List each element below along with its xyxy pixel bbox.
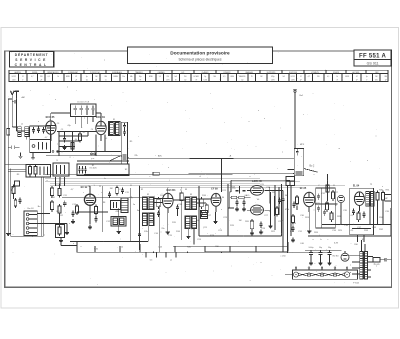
svg-text:c: c [328, 239, 329, 241]
svg-text:EC92: EC92 [12, 76, 16, 78]
parts table data cells [12, 74, 387, 82]
svg-text:AM: AM [22, 96, 25, 99]
harness wire 1 [45, 178, 260, 180]
wire bus risers [95, 244, 256, 258]
svg-text:1k: 1k [121, 247, 123, 249]
bus wire AVC right [128, 158, 295, 159]
svg-text:470k: 470k [285, 209, 289, 211]
svg-text:P5: P5 [346, 268, 348, 270]
resistor R0 on left rail [7, 126, 10, 137]
tube V1 ECC85 [46, 121, 56, 141]
svg-text:ECH81: ECH81 [194, 76, 199, 78]
FM dipole lead [293, 89, 297, 148]
wire links to filter boxes [8, 169, 26, 172]
svg-text:3n9: 3n9 [174, 76, 177, 78]
svg-text:12: 12 [300, 76, 302, 78]
svg-text:1k: 1k [57, 76, 59, 78]
wire V8 drop [307, 212, 311, 233]
svg-text:1/2W: 1/2W [291, 79, 295, 81]
svg-text:220: 220 [317, 76, 320, 78]
svg-text:1,5: 1,5 [159, 76, 161, 78]
box filter unit 1 [26, 165, 51, 178]
wire stage box V6 [281, 184, 283, 236]
resistor R15 [180, 191, 183, 203]
dial cord pulleys and cord [285, 267, 351, 278]
wire right bus upper [322, 224, 391, 226]
ground G1 [62, 145, 66, 149]
wire V1 plate to cap bank [51, 113, 71, 121]
svg-text:1/2W: 1/2W [166, 79, 170, 81]
svg-text:4,7: 4,7 [308, 76, 310, 78]
svg-text:FF 551 A: FF 551 A [359, 54, 387, 60]
svg-text:1/2W: 1/2W [203, 79, 207, 81]
tube V5 EF89 second [211, 193, 221, 212]
svg-text:150: 150 [184, 76, 187, 78]
resistor R28b [332, 190, 335, 201]
voltage selector box [373, 258, 391, 263]
svg-text:±5: ±5 [105, 79, 107, 81]
ground G2 [59, 238, 63, 242]
svg-text:EABC 80: EABC 80 [252, 180, 262, 183]
svg-text:1M: 1M [285, 195, 288, 197]
wire stage box V5 [199, 184, 282, 236]
harness wire 2 [45, 181, 300, 183]
wire double drop [290, 186, 292, 236]
svg-text:c: c [150, 176, 151, 178]
wire V8 anode link [315, 204, 338, 205]
parts top of panel [14, 197, 22, 208]
svg-text:GS 911: GS 911 [367, 62, 379, 66]
svg-text:110-245: 110-245 [373, 264, 379, 266]
harness wire 4 [50, 185, 345, 187]
svg-text:EF 85: EF 85 [300, 187, 307, 190]
wire y212 link [77, 211, 108, 213]
power transformer T3 [349, 252, 373, 280]
svg-text:R4: R4 [75, 139, 77, 141]
wire output box bottom [352, 228, 371, 229]
svg-text:d: d [199, 176, 200, 178]
ground G7 [250, 218, 273, 235]
antenna AM dipole [11, 91, 19, 96]
svg-text:C3: C3 [61, 129, 63, 131]
svg-text:Schéma et pièces électriques: Schéma et pièces électriques [178, 57, 221, 61]
svg-text:SERVICE: SERVICE [15, 58, 48, 62]
wire V3 right vertical [102, 186, 103, 232]
svg-text:EF 89: EF 89 [211, 187, 218, 190]
resistor R25 [326, 183, 329, 194]
wire detector drop [158, 205, 160, 252]
resistor R20 [250, 219, 253, 231]
svg-text:EF89: EF89 [345, 76, 349, 78]
tube V4 EF89 [163, 193, 174, 213]
box oscillator coil [111, 201, 121, 210]
switch S1 [102, 155, 122, 161]
resistor R14 [157, 197, 160, 209]
AF coupling parts [291, 214, 295, 242]
capacitor electrolytic C52 [327, 250, 331, 265]
rectifier V10 EZ80 [341, 251, 349, 261]
svg-text:p.u.: p.u. [91, 158, 95, 160]
wire oval stubs [247, 191, 270, 212]
svg-text:EZ 80: EZ 80 [333, 256, 340, 258]
svg-text:V: V [131, 79, 132, 81]
wire right verticals [341, 202, 391, 242]
svg-text:220: 220 [40, 76, 43, 78]
svg-text:125V: 125V [12, 79, 16, 81]
svg-text:FUSIBL.: FUSIBL. [32, 72, 39, 74]
svg-text:ECC 85: ECC 85 [46, 116, 55, 119]
svg-text:50µ: 50µ [139, 76, 142, 78]
svg-text:12: 12 [22, 76, 24, 78]
svg-text:50µ: 50µ [319, 247, 322, 249]
svg-text:R5: R5 [83, 132, 85, 134]
resistor R17 [205, 203, 208, 215]
svg-text:nF: nF [195, 79, 197, 81]
tube V7 lower triode [251, 205, 264, 215]
capacitor C13 [63, 200, 66, 207]
harness junction dots [88, 158, 230, 193]
svg-text:C4: C4 [91, 129, 93, 131]
parts table header cells [14, 70, 379, 74]
capacitor electrolytic C51 [318, 250, 322, 265]
wire stage links [154, 199, 211, 204]
output stage box [350, 188, 374, 235]
wire antenna leads [12, 95, 24, 131]
svg-text:C5 C6 C7 C8: C5 C6 C7 C8 [77, 102, 90, 104]
svg-text:DIVERS: DIVERS [333, 72, 339, 74]
svg-text:EC92: EC92 [291, 76, 295, 78]
box keyboard switch [77, 161, 129, 176]
svg-text:pF: pF [300, 79, 302, 81]
capacitor C2a [8, 146, 19, 149]
coil L1b [25, 127, 29, 137]
resistor R4 [71, 140, 74, 151]
IF can F3a [185, 197, 197, 210]
svg-text:380: 380 [104, 76, 107, 78]
bus wire AVC left [46, 155, 121, 157]
resistor R27 [330, 211, 333, 222]
svg-text:25: 25 [251, 76, 253, 78]
svg-text:SUPPORTS: SUPPORTS [267, 72, 276, 74]
coil L5 hatched [121, 198, 128, 213]
svg-text:Documentation provisoire: Documentation provisoire [170, 50, 230, 56]
capacitor C31 [317, 193, 320, 200]
wire lower-left loop [11, 169, 43, 237]
tube V8 EL84 [304, 192, 315, 212]
svg-text:1k: 1k [336, 76, 338, 78]
resistor R30 [376, 190, 379, 202]
svg-text:c 250: c 250 [280, 256, 286, 258]
connector PU [91, 153, 96, 155]
harness wire 3 [50, 183, 260, 185]
coil under V5 [201, 211, 208, 219]
svg-text:5p: 5p [366, 76, 368, 78]
diode detector cluster [228, 186, 251, 211]
wire HP links [385, 195, 392, 202]
volume control cluster [271, 192, 282, 218]
svg-text:EZ80: EZ80 [149, 76, 153, 78]
svg-text:EM84: EM84 [114, 76, 118, 78]
svg-text:Bu 4-8: Bu 4-8 [28, 208, 35, 210]
svg-text:0,5: 0,5 [223, 76, 225, 78]
svg-text:6,3V: 6,3V [334, 243, 339, 245]
resistor R16 [200, 197, 203, 209]
wire V4 drop [166, 203, 182, 240]
svg-text:pF: pF [385, 79, 387, 81]
capacitor C1 antenna [12, 100, 16, 103]
wire transformer risers [362, 240, 366, 252]
small driver circle [337, 195, 344, 208]
wire right bus lower [308, 235, 391, 237]
ground left rail [6, 231, 10, 235]
capacitor C15 [108, 191, 111, 198]
svg-text:10n: 10n [122, 76, 125, 78]
svg-text:0,1: 0,1 [48, 76, 50, 78]
svg-text:EC 92: EC 92 [81, 186, 88, 189]
resistor R12 [51, 200, 54, 212]
wire V2 top link [96, 113, 101, 121]
capacitor C3 [63, 136, 66, 143]
vertical x275 [270, 185, 279, 230]
resistor R10 [51, 186, 54, 198]
wire cap bank drops [75, 117, 93, 128]
capacitor C20 [200, 210, 203, 217]
svg-text:µF: µF [75, 79, 77, 81]
wire drop to bus [287, 186, 289, 252]
svg-text:POTENTIOM.: POTENTIOM. [90, 72, 100, 74]
coil L1a [18, 127, 21, 137]
wire V3 up [89, 186, 91, 224]
FM tuner box [294, 149, 303, 176]
svg-text:µF: µF [40, 79, 42, 81]
capacitor C17 [157, 210, 160, 217]
svg-text:27k: 27k [166, 76, 169, 78]
jack panel sockets [24, 211, 37, 236]
svg-text:DÉPARTEMENT: DÉPARTEMENT [15, 52, 49, 57]
capacitor bank box [71, 104, 97, 117]
capacitor C18 [176, 204, 179, 211]
small box left [15, 181, 20, 186]
svg-text:8µ: 8µ [204, 76, 206, 78]
IF can F2b [142, 213, 154, 226]
capacitor electrolytic C50 [309, 250, 313, 265]
wire dotted pair [41, 178, 43, 237]
bus wire B+ [45, 174, 295, 175]
svg-text:6,3: 6,3 [150, 260, 153, 262]
parts left of V3 [71, 204, 79, 224]
harness wire 5 [140, 187, 300, 189]
ground under phono [31, 152, 35, 159]
wire V5 drop [213, 212, 217, 224]
output transformer T2 [366, 192, 374, 207]
svg-text:P1: P1 [295, 268, 297, 270]
parts below V9 [352, 208, 366, 222]
dial cord drive box [292, 270, 357, 279]
svg-text:REP.: REP. [375, 72, 379, 74]
svg-text:V: V [366, 79, 367, 81]
svg-text:V: V [22, 79, 23, 81]
switch S2 FM [304, 169, 318, 173]
bus wire ground return [77, 252, 330, 253]
wire cap bank feed [305, 250, 341, 251]
wire panel links [37, 214, 69, 235]
capacitor C33 [323, 209, 326, 216]
tube V9 EL84 output [354, 192, 364, 211]
svg-text:22n: 22n [161, 228, 164, 230]
tube V2 ECH81 [96, 121, 106, 141]
parts under harness left [116, 185, 125, 195]
svg-text:2x50µ: 2x50µ [309, 247, 314, 249]
wire y164 left [5, 164, 46, 166]
resistor R5 [79, 132, 82, 143]
svg-text:Bu: Bu [38, 206, 40, 208]
svg-text:AVC: AVC [158, 155, 163, 158]
box tuner caps [30, 126, 51, 140]
box tone network [316, 188, 336, 228]
box bias cell [56, 225, 65, 238]
title block: reference box FF 551 A [354, 50, 391, 66]
wire V4 top [167, 188, 169, 193]
volume pot right parts [292, 195, 298, 210]
wire left rail [8, 99, 12, 231]
svg-text:CENTRAL: CENTRAL [15, 63, 49, 67]
wire screen feed [327, 174, 329, 201]
title block: department box [10, 52, 54, 68]
small coupling box [286, 177, 295, 186]
svg-text:2x1: 2x1 [282, 76, 285, 78]
oscillator coil box tall [121, 122, 127, 164]
svg-text:EL 84: EL 84 [353, 185, 360, 188]
pot P1 left [11, 184, 15, 199]
capacitor C14 [94, 216, 97, 223]
IF can F2a [142, 197, 154, 210]
svg-text:0,1: 0,1 [327, 76, 329, 78]
resistor R6 on bus [153, 172, 159, 175]
phono input box [30, 140, 51, 153]
svg-text:47: 47 [356, 76, 358, 78]
wire verticals mid-left [130, 186, 139, 250]
svg-text:1M: 1M [239, 220, 242, 222]
svg-text:P3: P3 [321, 268, 323, 270]
resistor R11 chain [58, 184, 61, 225]
svg-text:22k: 22k [134, 155, 137, 157]
wire feed corner [205, 242, 288, 252]
svg-text:47: 47 [75, 76, 77, 78]
svg-text:560: 560 [213, 76, 216, 78]
wire IF feed vertical [221, 159, 223, 193]
capacitor C32 [317, 205, 320, 212]
border frame [5, 51, 392, 287]
svg-text:nF: nF [139, 79, 141, 81]
resistor R1 [28, 164, 31, 176]
svg-text:MPX: MPX [300, 144, 305, 146]
svg-text:EF89: EF89 [66, 76, 70, 78]
svg-text:470p: 470p [271, 76, 275, 78]
wire F3 drop [186, 229, 194, 245]
wire fm left stub [288, 169, 295, 171]
wire ground link [61, 242, 77, 253]
grid cluster under V1 [57, 131, 121, 156]
wire heater y246 [173, 245, 288, 247]
IF transformer T1 [109, 121, 121, 135]
ground tuner [18, 152, 22, 158]
resistor R31 [381, 190, 384, 202]
svg-text:4,7: 4,7 [31, 76, 33, 78]
svg-text:ECH 81: ECH 81 [96, 116, 105, 119]
svg-text:G4: G4 [334, 268, 336, 270]
box padder [111, 217, 126, 227]
title block: document title box [128, 47, 273, 64]
svg-text:1n: 1n [133, 204, 135, 206]
svg-text:1M: 1M [110, 188, 113, 190]
wire V3 left [62, 197, 142, 198]
resistor R2 [34, 164, 37, 176]
svg-text:F 534: F 534 [353, 283, 359, 285]
svg-text:68k: 68k [130, 76, 133, 78]
svg-text:1/2W: 1/2W [271, 79, 275, 81]
svg-text:COMMUT.: COMMUT. [223, 72, 231, 74]
capacitor C16b [138, 231, 141, 238]
svg-text:CV 4025: CV 4025 [89, 168, 96, 170]
svg-text:G2: G2 [308, 268, 310, 270]
resistor R26 [326, 201, 329, 212]
ground G3 [88, 225, 92, 229]
svg-text:50µ: 50µ [328, 247, 331, 249]
resistor R13 [95, 204, 98, 215]
IF can F3b [185, 216, 197, 229]
wire interstage [265, 191, 285, 252]
wire keyboard drops [55, 177, 65, 186]
svg-text:5p: 5p [86, 76, 88, 78]
box filter unit 2 [53, 163, 69, 176]
connector dots A [52, 151, 58, 153]
tube V3 oscillator [84, 194, 95, 205]
wire anode y180 [231, 180, 290, 192]
wire osc drop [117, 208, 121, 234]
svg-text:3n: 3n [137, 210, 139, 212]
capacitor C28 [259, 221, 262, 228]
svg-text:6800: 6800 [230, 76, 234, 78]
tube V6 EABC80 upper [251, 185, 264, 195]
parts table frame [9, 70, 388, 81]
wire tuner drop [8, 137, 27, 148]
svg-text:380: 380 [384, 76, 387, 78]
svg-text:BOUTONS: BOUTONS [289, 72, 297, 74]
svg-text:Bu 2: Bu 2 [310, 166, 315, 168]
wire F2 shield drop [70, 226, 148, 242]
